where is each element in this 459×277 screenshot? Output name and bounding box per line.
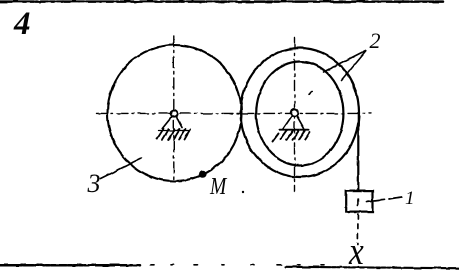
wheel 3 rim [108,45,242,181]
weight 1 block [346,191,372,212]
label 2 [370,28,381,54]
pulley 2 outer rim [241,48,359,177]
top border line [0,0,443,3]
bottom border left segment [0,264,140,267]
pulley 2 support leg left [283,116,292,129]
wheel 3 support leg left [162,117,172,129]
bottom border right segment [285,267,459,268]
label M [210,173,226,201]
wheel 3 horizontal dash-dot centerline [96,112,371,114]
label x [349,229,364,274]
bottom border middle dashes [150,264,330,266]
leader line from label 2 to inner rim [324,51,366,73]
label 3 [88,169,101,199]
leader line to label 1 [366,197,402,202]
pulley 2 pivot pin [291,109,298,116]
pulley 2 inner rim [256,62,343,166]
small ink fleck below M [241,191,243,193]
wheel 3 pivot pin [171,110,178,117]
wheel 3 vertical dash-dot centerline [173,36,175,180]
point M dot on wheel 3 rim [199,170,207,178]
wheel 3 support hatching [157,129,190,140]
pulley 2 support base line [279,129,309,131]
x-axis dashed line below weight [357,214,359,244]
stray tick mark near pulley center [310,91,313,95]
rope from pulley 2 to weight 1 [357,113,359,191]
leader line from label 2 to outer rim [342,51,366,80]
pulley 2 vertical dash-dot centerline [294,38,296,191]
weight 1 dashed centerline inside block [357,199,359,207]
label 1 [405,188,415,210]
figure number 4 [14,6,31,43]
pulley 2 support hatching [273,130,310,141]
pulley 2 support leg right [297,116,304,129]
leader line from label 3 to wheel [101,159,142,179]
wheel 3 support leg right [176,117,182,128]
